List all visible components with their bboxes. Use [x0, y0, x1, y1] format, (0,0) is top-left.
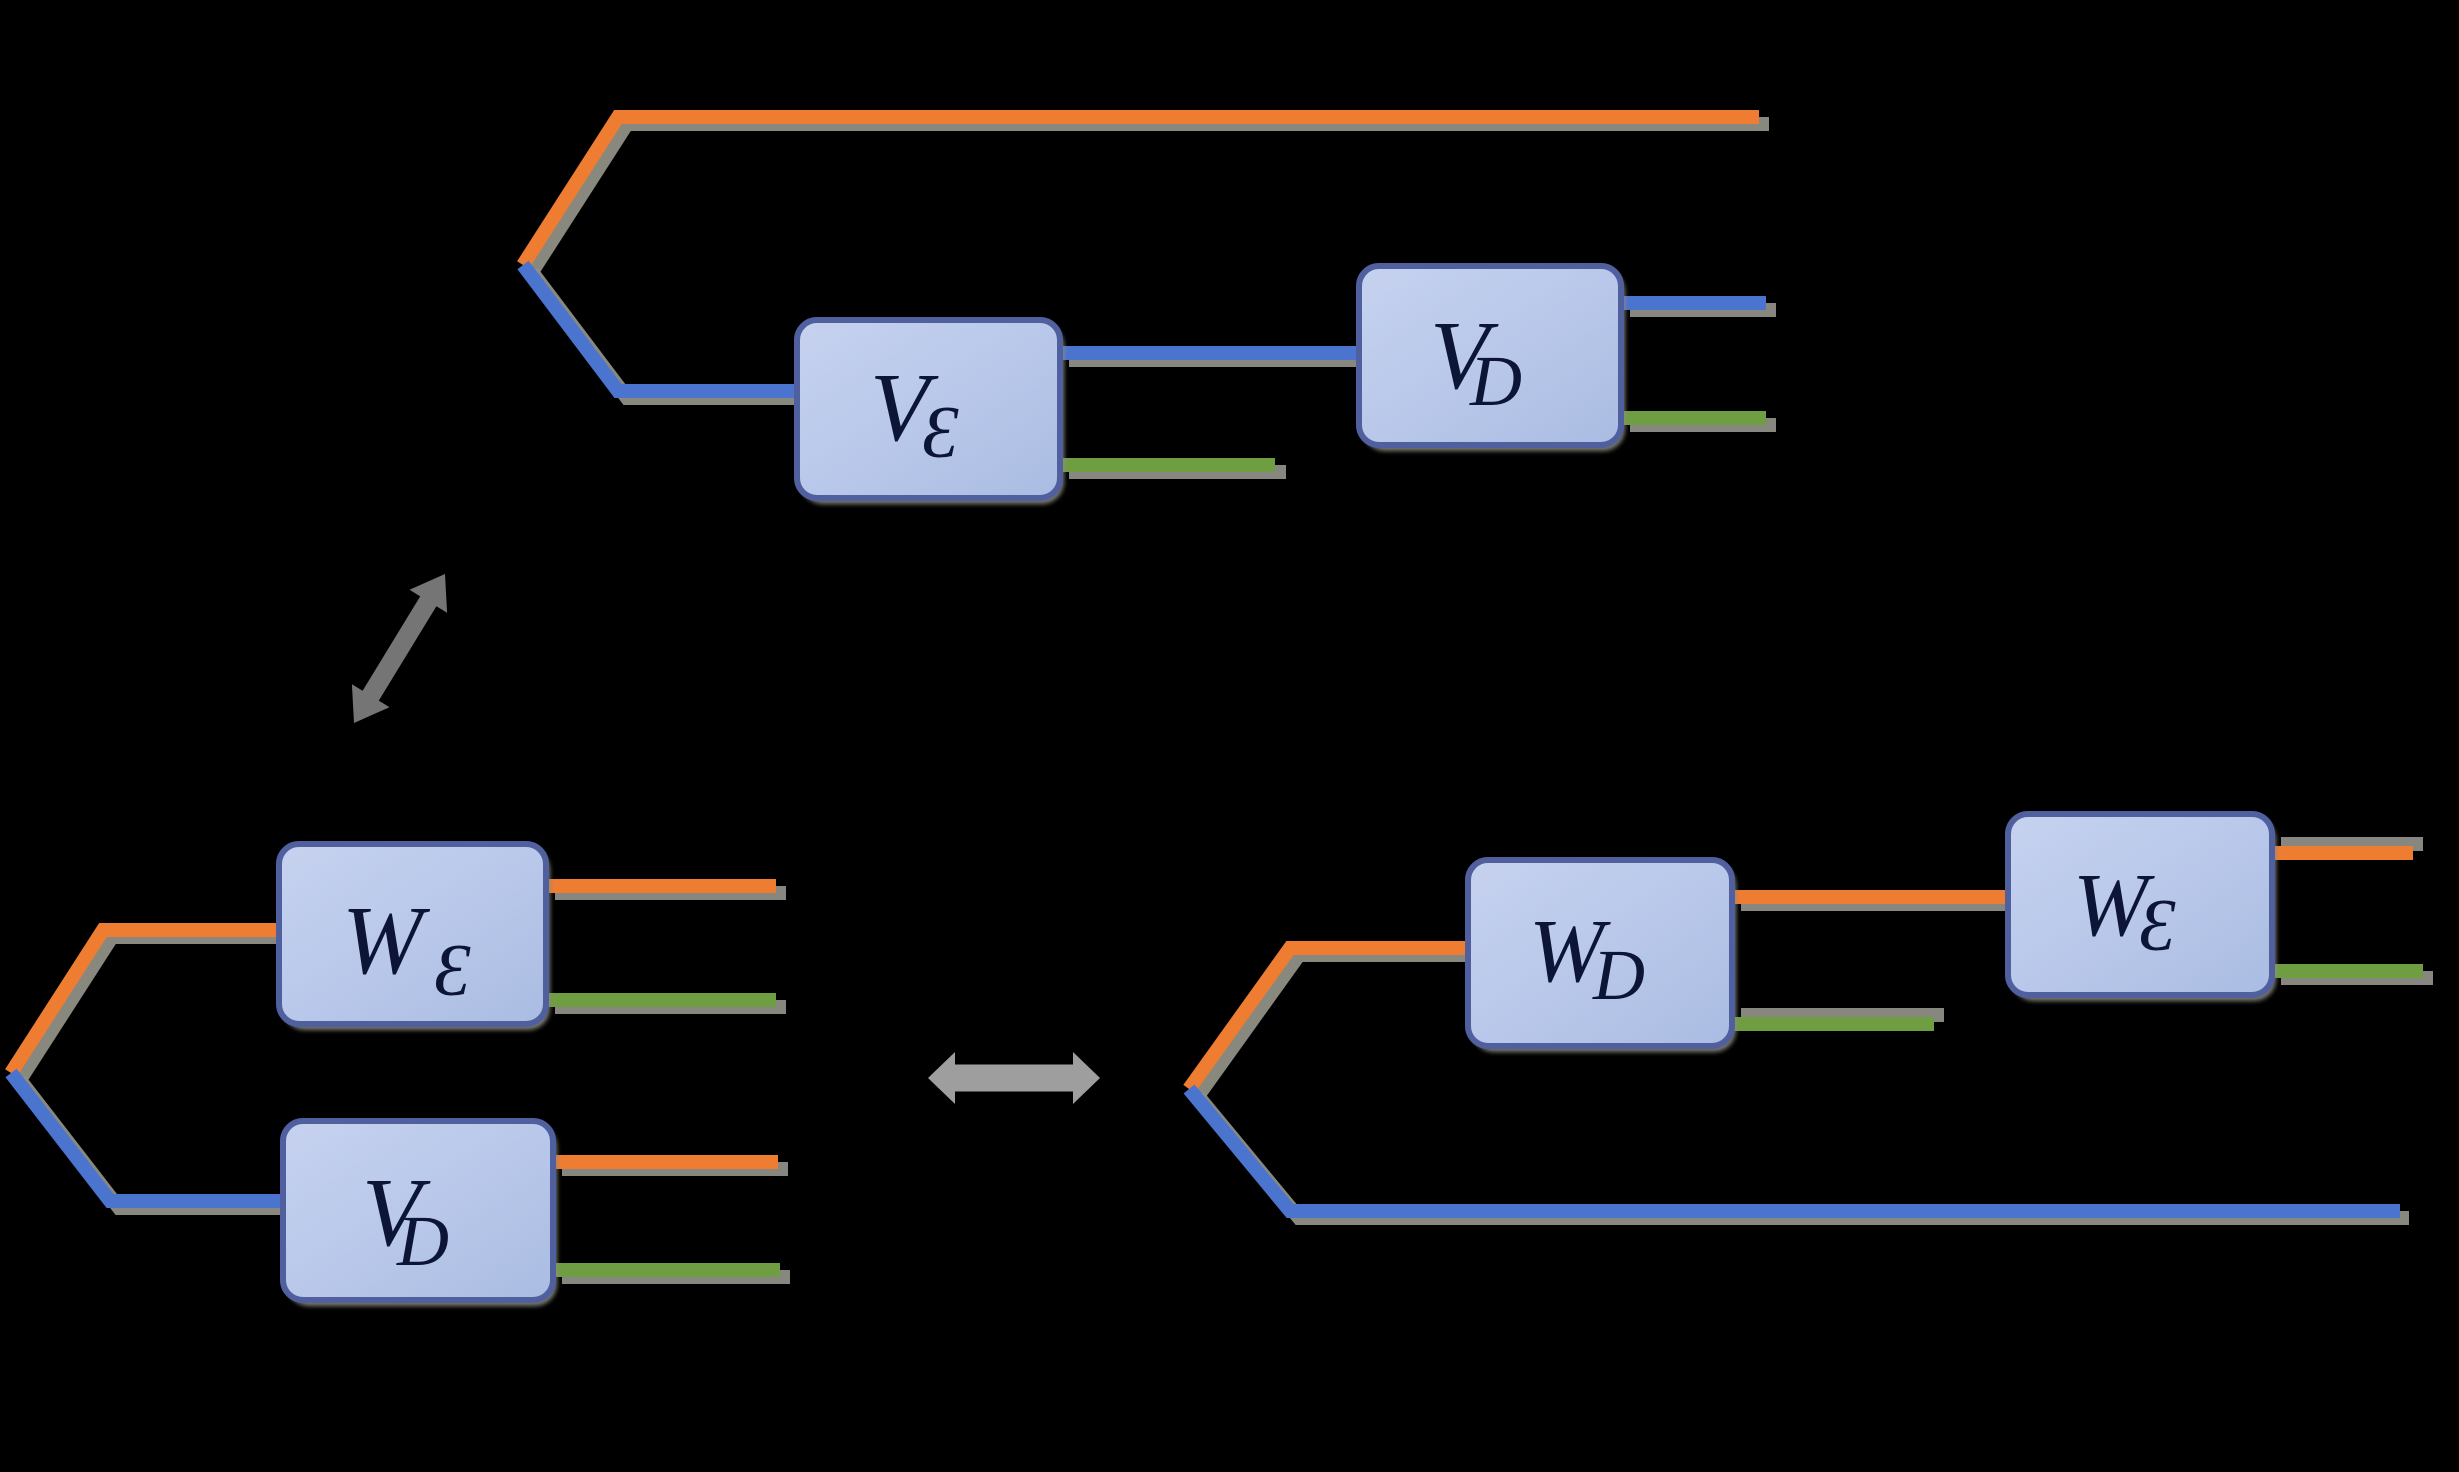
- isometry box W_E (bottom-right): [2008, 814, 2276, 1001]
- wire: orange between W_D and W_E: [1732, 897, 2017, 904]
- wire: green stub from V_D (bottom-left): [553, 1270, 790, 1277]
- wire: top bracket orange (reference R): [523, 117, 1769, 272]
- svg-text:Ɛ: Ɛ: [2139, 885, 2176, 967]
- wire: blue stub from V_D: [1621, 303, 1776, 310]
- wire: bottom-left bracket blue: [11, 1073, 292, 1208]
- arrow: middle horizontal double-headed gray: [928, 1052, 1100, 1104]
- isometry box W_E (bottom-left): [279, 844, 550, 1030]
- isometry box V_D (top): [1359, 266, 1625, 451]
- wire: blue between V_E and V_D: [1060, 353, 1369, 360]
- isometry box W_D (bottom-right): [1468, 860, 1736, 1052]
- svg-text:D: D: [1469, 341, 1522, 421]
- wire: bottom-right bracket orange: [1189, 948, 1477, 1096]
- wire: top bracket blue (system A): [523, 265, 806, 398]
- isometry box V_D (bottom-left): [283, 1121, 557, 1306]
- wire: bottom-right bracket blue (long system wire): [1189, 1089, 2409, 1218]
- wire: orange stub from W_E (bottom-right): [2272, 844, 2423, 853]
- wire: green stub from V_D: [1621, 418, 1776, 425]
- wire: green stub from W_E (bottom-right): [2272, 971, 2433, 978]
- wire: green stub from V_E: [1060, 465, 1286, 472]
- svg-text:W: W: [342, 887, 431, 994]
- wire: green stub from W_E (bottom-left): [546, 1000, 786, 1007]
- wire: orange stub from W_E (bottom-left): [546, 886, 786, 893]
- wire: green stub from W_D: [1732, 1015, 1944, 1024]
- svg-text:Ɛ: Ɛ: [922, 392, 959, 474]
- svg-text:D: D: [396, 1201, 449, 1281]
- svg-text:Ɛ: Ɛ: [434, 930, 471, 1012]
- wire: bottom-left bracket orange: [11, 930, 289, 1080]
- wire: orange stub from V_D (bottom-left): [553, 1162, 788, 1169]
- svg-text:D: D: [1592, 935, 1645, 1015]
- arrow: diagonal double-headed gray: [352, 574, 447, 723]
- isometry box V_E (top): [797, 320, 1064, 504]
